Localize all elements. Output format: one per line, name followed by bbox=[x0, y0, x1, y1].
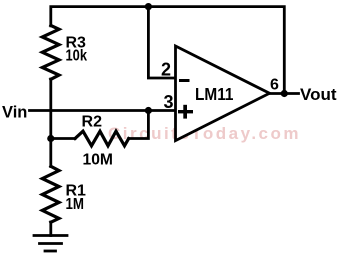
svg-text:3: 3 bbox=[164, 92, 174, 112]
svg-text:R2: R2 bbox=[82, 114, 103, 131]
svg-text:2: 2 bbox=[161, 60, 171, 80]
svg-text:Vin: Vin bbox=[2, 104, 27, 122]
svg-text:10k: 10k bbox=[66, 48, 88, 65]
svg-text:LM11: LM11 bbox=[195, 84, 234, 104]
svg-text:Vout: Vout bbox=[300, 85, 337, 104]
svg-text:6: 6 bbox=[270, 77, 279, 94]
svg-text:10M: 10M bbox=[83, 152, 114, 169]
svg-text:1M: 1M bbox=[66, 196, 85, 213]
